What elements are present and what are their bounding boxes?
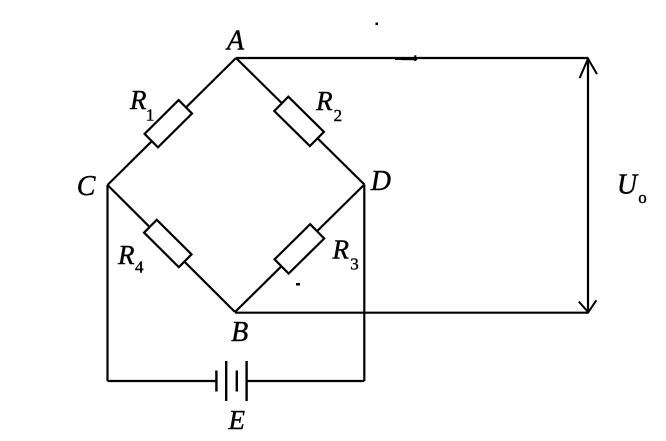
node A label xyxy=(225,25,245,56)
svg-text:D: D xyxy=(370,166,391,197)
resistor R1 body xyxy=(145,100,192,147)
current arrow on top wire xyxy=(395,55,417,61)
svg-text:2: 2 xyxy=(334,106,343,125)
svg-text:R: R xyxy=(117,240,135,270)
right wire D down xyxy=(363,185,365,382)
output wire right vertical xyxy=(587,58,589,313)
node B label xyxy=(231,317,248,348)
node D label xyxy=(370,166,391,197)
left wire C down xyxy=(106,185,108,381)
svg-text:A: A xyxy=(225,25,245,56)
svg-text:1: 1 xyxy=(146,106,155,125)
resistor R4 body xyxy=(144,220,191,267)
arrowhead down at bottom of output wire xyxy=(579,300,597,312)
svg-text:3: 3 xyxy=(350,254,359,273)
top wire A to output xyxy=(236,57,588,59)
battery label E xyxy=(227,405,245,435)
svg-text:o: o xyxy=(638,188,647,207)
bottom wire B to output xyxy=(235,312,588,314)
svg-text:E: E xyxy=(227,405,245,435)
label U_o xyxy=(617,170,647,207)
svg-text:4: 4 xyxy=(135,258,144,277)
label R1 xyxy=(129,85,154,125)
stray speck near R3 xyxy=(296,283,300,286)
wire C-B xyxy=(108,185,236,312)
svg-text:B: B xyxy=(231,317,248,348)
svg-text:C: C xyxy=(77,171,96,202)
stray speck top right xyxy=(376,23,379,26)
resistor R2 body xyxy=(274,97,324,146)
wire C-A xyxy=(108,58,237,185)
svg-text:R: R xyxy=(332,235,350,265)
bottom bus left segment xyxy=(108,380,217,382)
wire A-D xyxy=(236,58,364,185)
resistor R3 body xyxy=(275,224,325,273)
svg-text:U: U xyxy=(617,170,639,201)
label R4 xyxy=(117,240,144,276)
label R3 xyxy=(332,235,359,274)
battery E plates xyxy=(216,361,246,401)
bottom bus right segment xyxy=(247,380,365,382)
label R2 xyxy=(315,86,342,125)
node C label xyxy=(77,171,96,202)
svg-text:R: R xyxy=(315,86,333,116)
wire B-D xyxy=(235,185,364,313)
svg-text:R: R xyxy=(129,85,147,115)
arrowhead up at top of output wire xyxy=(580,59,597,78)
